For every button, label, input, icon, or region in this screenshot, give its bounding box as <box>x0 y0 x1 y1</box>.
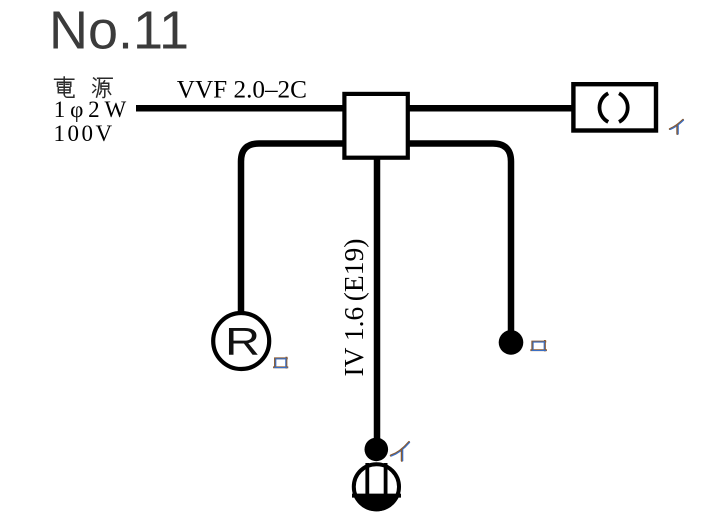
label ro (katakana) at lamp receptacle <box>274 358 287 368</box>
left paren of rosette <box>599 93 608 122</box>
wire: power feed horizontal (source to box to outlet box) <box>136 105 573 112</box>
svg-text:1φ2W: 1φ2W <box>54 97 131 122</box>
label i (katakana) at bottom switch <box>391 442 410 461</box>
kanji 源 (power source label) <box>93 78 112 98</box>
switch i (filled dot, bottom) <box>365 438 389 462</box>
switch ro (filled dot, right branch) <box>499 330 524 355</box>
svg-text:100V: 100V <box>54 121 115 146</box>
wire: right branch to switch ro (rounded corner) <box>408 144 511 339</box>
wall outlet (circle with prongs, wall-side filled) <box>354 464 399 509</box>
label i (katakana) at rosette <box>670 120 684 134</box>
outlet prong line right <box>384 463 388 496</box>
kanji 電 (power source label) <box>55 77 74 97</box>
label ro (katakana) at right switch <box>531 341 546 351</box>
right paren of rosette <box>619 93 628 122</box>
junction box (outlet box) <box>344 94 407 158</box>
lamp receptacle R <box>213 313 269 369</box>
svg-text:No.11: No.11 <box>49 1 189 61</box>
wire: left branch to lamp receptacle (rounded corner) <box>241 144 344 314</box>
outlet chord line <box>352 494 401 498</box>
outlet prong line left <box>365 463 369 496</box>
svg-text:R: R <box>225 320 260 363</box>
svg-text:VVF 2.0–2C: VVF 2.0–2C <box>177 77 307 104</box>
svg-text:IV 1.6 (E19): IV 1.6 (E19) <box>338 239 369 377</box>
outlet wall-side filled segment <box>351 496 402 513</box>
wire: bottom vertical through conduit to switch i <box>374 158 381 445</box>
ceiling rosette (box with parentheses) <box>573 84 656 130</box>
